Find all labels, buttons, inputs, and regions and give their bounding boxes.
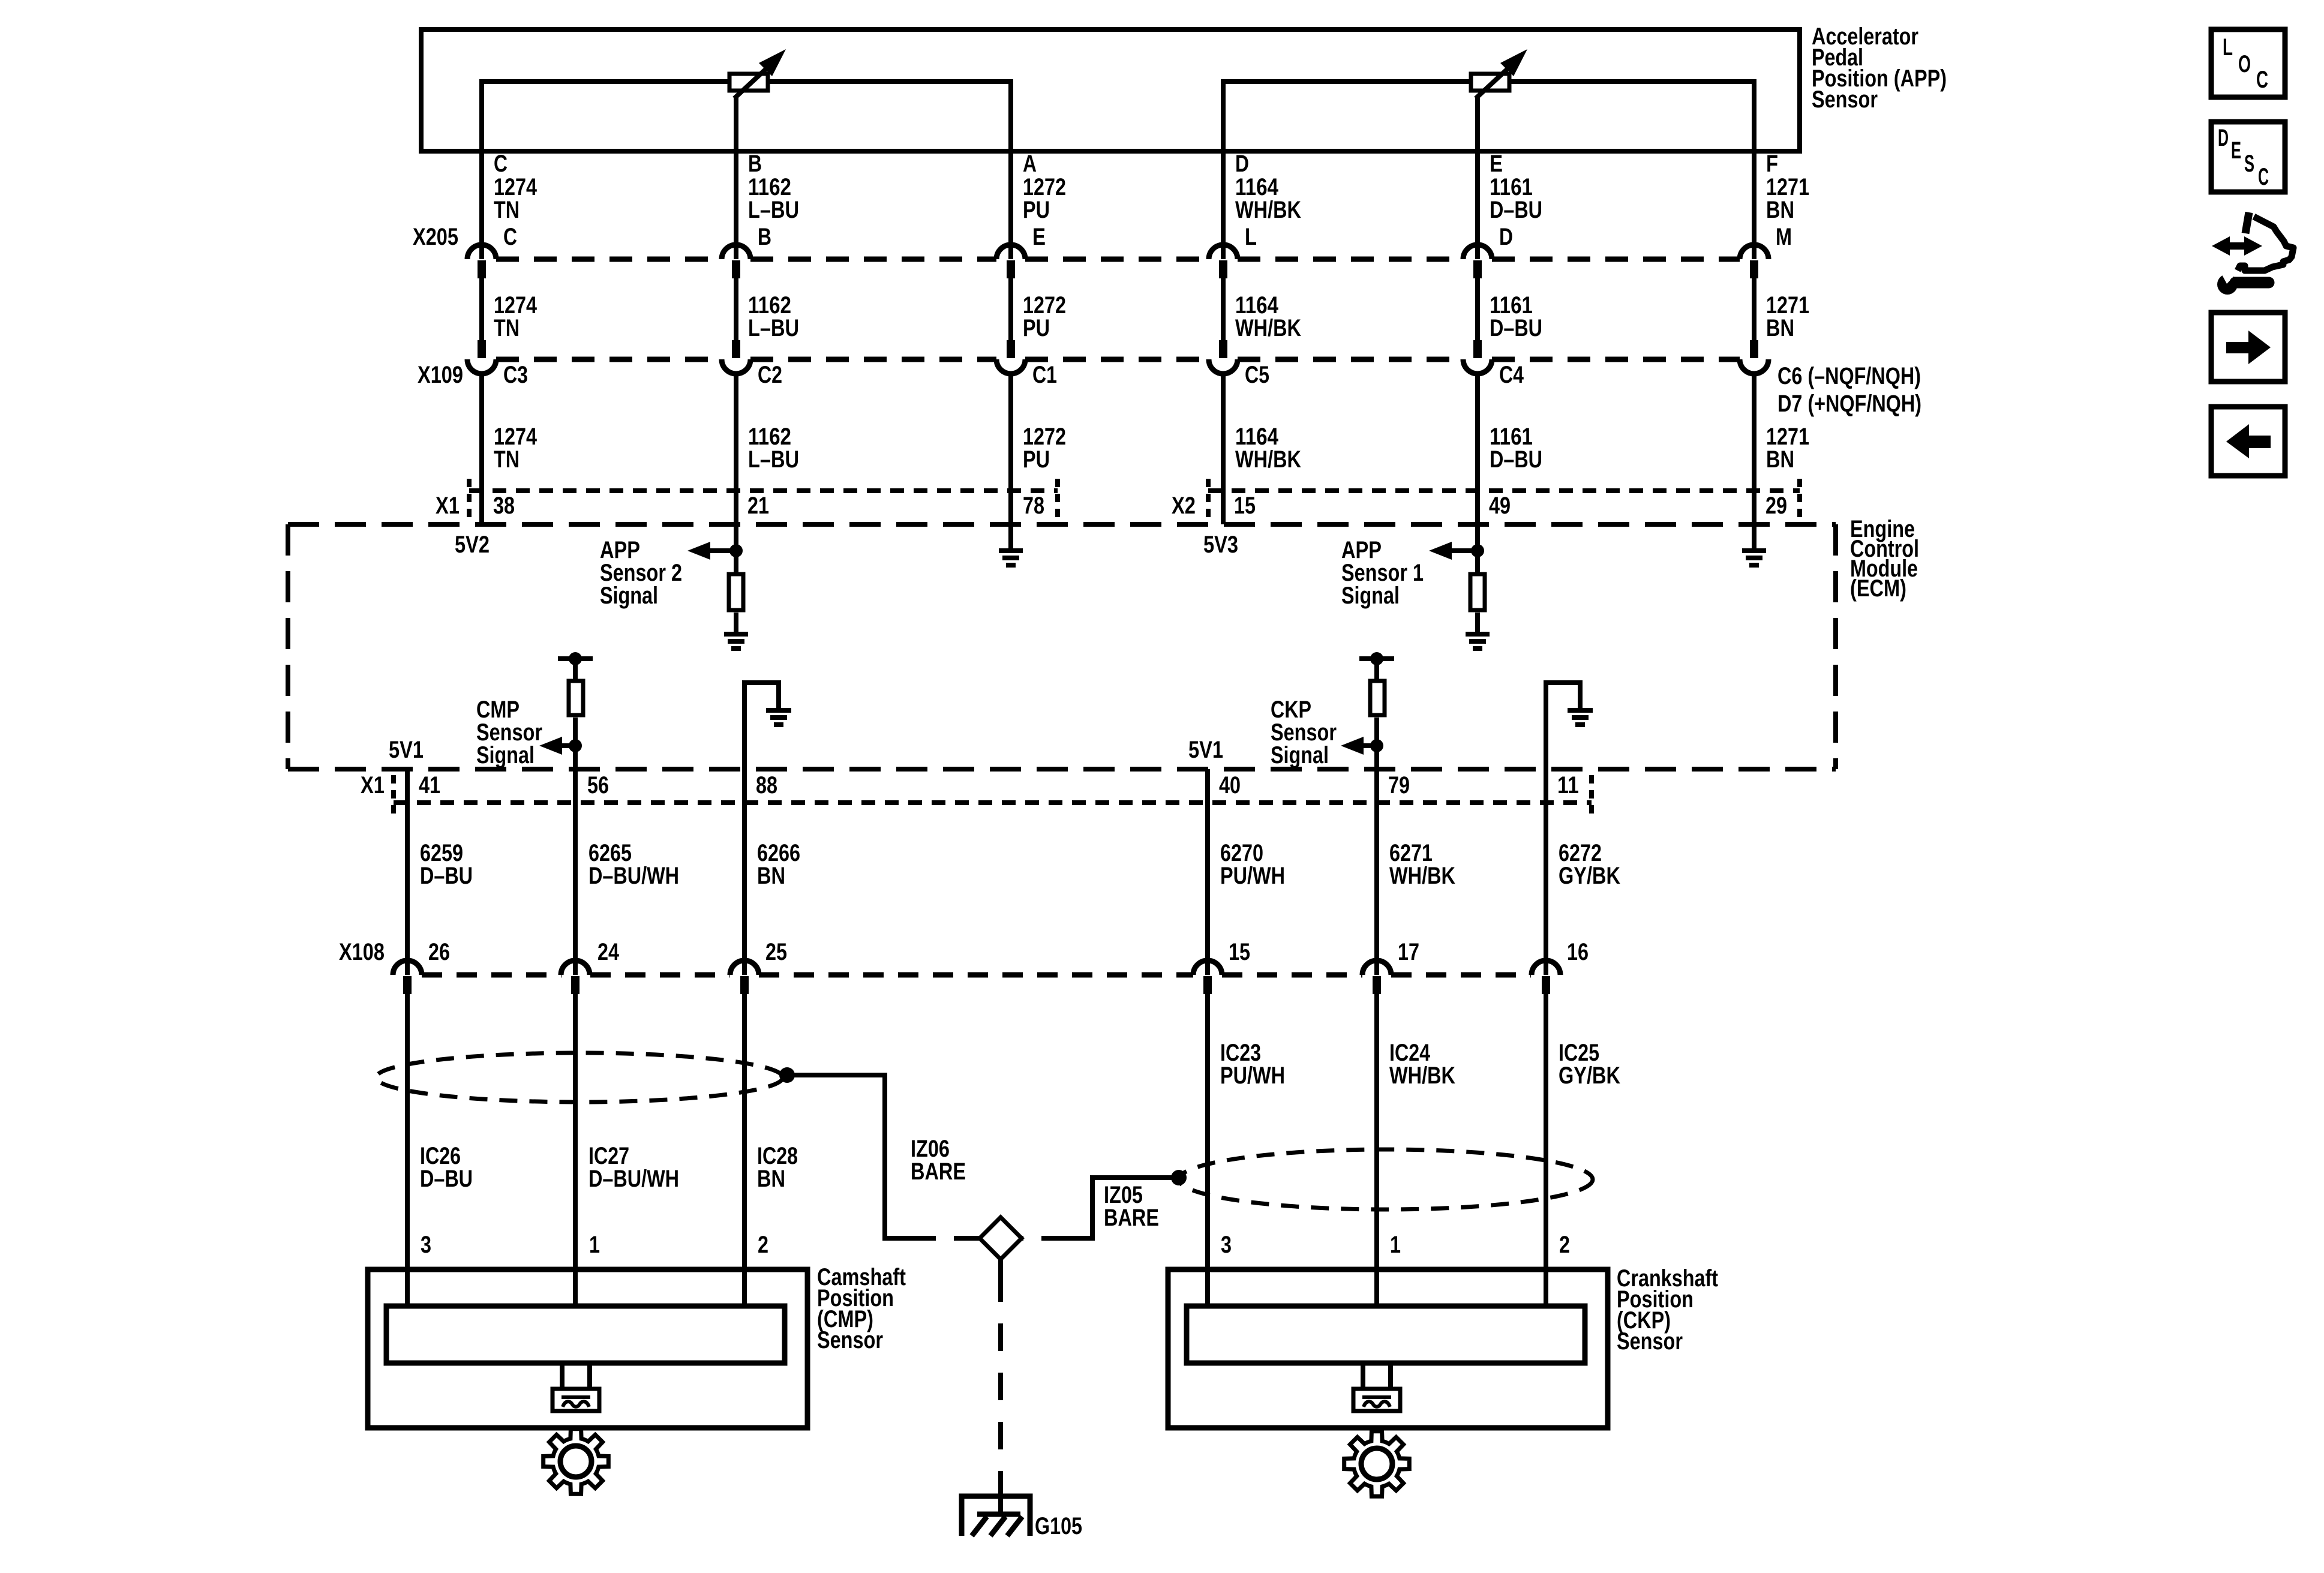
wire 1162 L-BU segment 3 <box>734 374 738 524</box>
svg-text:C6 (–NQF/NQH): C6 (–NQF/NQH) <box>1777 363 1921 389</box>
CMP sensor element <box>386 1306 785 1363</box>
potentiometer APP sensor 2 body <box>729 74 768 91</box>
svg-text:D–BU: D–BU <box>420 863 473 889</box>
connector X109 terminal C6 D7 <box>1750 340 1758 358</box>
wire 11 inside ECM <box>1546 683 1580 769</box>
connector X1 ECM bottom dashed line <box>394 800 1592 805</box>
svg-text:C: C <box>2256 67 2268 93</box>
node shield CMP junction <box>779 1067 795 1083</box>
svg-text:BARE: BARE <box>911 1158 966 1185</box>
svg-text:1: 1 <box>589 1232 600 1258</box>
svg-text:PU/WH: PU/WH <box>1220 863 1285 889</box>
svg-text:E: E <box>2231 137 2241 164</box>
wire 1274 TN segment 3 <box>479 374 484 524</box>
connector X1 tick left <box>467 479 472 517</box>
wire B inside ECM <box>734 524 738 574</box>
node CKP supply junction <box>1370 652 1383 665</box>
shield CKP drain ellipse <box>1179 1149 1593 1209</box>
node APP sensor 2 signal junction <box>729 544 743 557</box>
connector X205 terminal C <box>467 245 496 259</box>
wire splice to ground <box>998 1259 1003 1274</box>
wire 6270 PU/WH <box>1205 769 1210 975</box>
svg-text:X108: X108 <box>339 939 385 965</box>
connector X205 terminal M <box>1740 245 1768 259</box>
svg-text:Signal: Signal <box>1271 742 1329 769</box>
svg-text:X2: X2 <box>1172 493 1196 519</box>
wire 1271 BN segment 2 <box>1752 278 1756 340</box>
wire F inside ECM <box>1752 524 1756 551</box>
wire CKP pull-up <box>1374 659 1379 680</box>
connector X109 terminal C3 <box>478 340 486 358</box>
CMP sensor pickup box <box>553 1389 599 1411</box>
connector X2 tick right <box>1797 479 1802 517</box>
svg-text:Sensor: Sensor <box>1812 86 1878 113</box>
svg-text:C5: C5 <box>1245 362 1269 388</box>
wire IC24 WH/BK <box>1374 994 1379 1306</box>
wire 1272 PU segment 2 <box>1008 278 1013 340</box>
wire 6259 D-BU <box>405 769 410 975</box>
svg-text:B: B <box>758 224 771 250</box>
connector X108 terminal 24 <box>561 960 590 975</box>
svg-text:WH/BK: WH/BK <box>1389 863 1455 889</box>
wire IC23 PU/WH <box>1205 994 1210 1306</box>
ECM box <box>288 524 1836 769</box>
CKP pull-up supply rail <box>1359 656 1394 661</box>
svg-text:5V2: 5V2 <box>455 532 490 558</box>
svg-text:X1: X1 <box>436 493 460 519</box>
wire A inside ECM <box>1008 524 1013 551</box>
connector X205 terminal B <box>722 245 750 259</box>
svg-text:TN: TN <box>494 446 520 473</box>
potentiometer APP sensor 2 wiper arrow <box>734 67 768 98</box>
svg-text:BN: BN <box>1766 315 1794 341</box>
CKP sensor element <box>1187 1306 1585 1363</box>
ground pin 78 <box>999 551 1023 565</box>
svg-text:78: 78 <box>1023 493 1044 519</box>
svg-text:TN: TN <box>494 315 520 341</box>
svg-text:TN: TN <box>494 197 520 223</box>
wire IC28 BN <box>742 994 747 1306</box>
svg-text:15: 15 <box>1234 493 1256 519</box>
gear CMP reluctor <box>544 1429 609 1494</box>
connector X205 dashed line <box>496 257 1740 262</box>
APP sensor box <box>421 29 1800 151</box>
svg-text:C3: C3 <box>503 362 528 388</box>
svg-text:WH/BK: WH/BK <box>1235 315 1301 341</box>
svg-text:PU: PU <box>1023 197 1050 223</box>
wire 1161 D-BU segment 2 <box>1475 278 1480 340</box>
ground APP sensor 1 <box>1466 634 1490 649</box>
svg-text:(ECM): (ECM) <box>1850 575 1906 602</box>
svg-text:C: C <box>494 151 508 177</box>
svg-text:11: 11 <box>1557 772 1579 798</box>
svg-text:D–BU: D–BU <box>1490 315 1542 341</box>
potentiometer APP sensor 2 track <box>482 82 1011 259</box>
wire 88 inside ECM <box>744 683 779 769</box>
svg-text:M: M <box>1776 224 1792 250</box>
svg-text:21: 21 <box>747 493 769 519</box>
wire E wiper <box>1475 97 1480 259</box>
icon next page arrow box <box>2211 313 2285 382</box>
resistor CMP pull-up <box>569 681 583 715</box>
svg-text:3: 3 <box>421 1232 431 1258</box>
wire 1272 PU segment 3 <box>1008 374 1013 524</box>
connector X109 dashed line <box>496 357 1740 362</box>
node CKP sensor signal junction <box>1370 739 1383 752</box>
svg-text:Sensor: Sensor <box>1617 1328 1683 1355</box>
icon harness repair double arrow <box>2212 236 2262 256</box>
ground APP sensor 2 <box>724 634 748 649</box>
CMP sensor box <box>368 1269 807 1428</box>
CKP Sensor Signal arrow <box>1361 743 1377 748</box>
svg-text:BARE: BARE <box>1104 1205 1159 1231</box>
wire IZ05 BARE <box>1070 1178 1179 1238</box>
icon previous page arrow box <box>2211 407 2285 476</box>
connector X1 tick right <box>1055 479 1060 517</box>
svg-text:3: 3 <box>1221 1232 1232 1258</box>
svg-text:C2: C2 <box>758 362 782 388</box>
svg-text:1: 1 <box>1390 1232 1401 1258</box>
wire 79 inside ECM <box>1374 718 1379 769</box>
CMP sensor connector stubs <box>562 1363 590 1389</box>
svg-text:E: E <box>1490 151 1503 177</box>
wire below resistor <box>1475 613 1480 634</box>
resistor APP sensor 2 pull-down <box>729 574 743 610</box>
wire 6271 WH/BK <box>1374 769 1379 975</box>
svg-text:26: 26 <box>428 939 450 965</box>
connector X109 terminal C5 <box>1219 340 1227 358</box>
svg-text:L–BU: L–BU <box>748 446 799 473</box>
svg-text:L: L <box>1245 224 1257 250</box>
wire 1164 WH/BK segment 3 <box>1221 374 1226 524</box>
connector X205 terminal D <box>1463 245 1492 259</box>
connector X108 terminal 26 <box>393 960 422 975</box>
APP Sensor 1 Signal arrow <box>1449 548 1478 553</box>
wire IZ06 BARE <box>787 1075 907 1238</box>
svg-text:L: L <box>2223 34 2233 61</box>
wire 6272 GY/BK <box>1544 769 1548 975</box>
svg-text:Signal: Signal <box>476 742 535 769</box>
node APP sensor 1 signal junction <box>1471 544 1484 557</box>
svg-text:29: 29 <box>1765 493 1787 519</box>
svg-text:17: 17 <box>1398 939 1419 965</box>
potentiometer APP sensor 1 track <box>1223 82 1754 259</box>
svg-text:PU/WH: PU/WH <box>1220 1062 1285 1089</box>
svg-text:PU: PU <box>1023 446 1050 473</box>
wire IC27 D-BU/WH <box>573 994 578 1306</box>
svg-text:S: S <box>2244 151 2254 177</box>
svg-text:A: A <box>1023 151 1037 177</box>
node shield CKP junction <box>1171 1170 1187 1185</box>
splice diamond <box>980 1217 1022 1259</box>
svg-text:D–BU: D–BU <box>420 1166 473 1192</box>
svg-text:D–BU: D–BU <box>1490 197 1542 223</box>
connector X2 ECM top dashed line <box>1208 488 1800 493</box>
icon DESC box <box>2211 122 2285 192</box>
ground pin 29 <box>1742 551 1766 565</box>
icon harness repair connector outline <box>2238 217 2293 271</box>
svg-text:BN: BN <box>1766 446 1794 473</box>
CMP Sensor Signal arrow <box>560 743 575 748</box>
svg-text:D: D <box>1499 224 1513 250</box>
connector X108 terminal 17 <box>1362 960 1391 975</box>
svg-text:D7 (+NQF/NQH): D7 (+NQF/NQH) <box>1777 391 1921 417</box>
svg-text:X109: X109 <box>418 362 463 388</box>
svg-text:X1: X1 <box>361 772 385 798</box>
svg-text:24: 24 <box>597 939 620 965</box>
connector X1 bottom tick left <box>391 775 396 813</box>
wire 6265 D-BU/WH <box>573 769 578 975</box>
svg-text:G105: G105 <box>1035 1513 1082 1539</box>
connector X1 ECM top dashed line <box>469 488 1058 493</box>
svg-text:88: 88 <box>756 772 777 798</box>
svg-text:B: B <box>748 151 762 177</box>
APP Sensor 2 Signal arrow <box>708 548 736 553</box>
connector X108 terminal 16 <box>1532 960 1560 975</box>
svg-text:5V1: 5V1 <box>1188 737 1223 763</box>
svg-text:Signal: Signal <box>1341 583 1400 609</box>
svg-text:16: 16 <box>1567 939 1589 965</box>
connector X108 terminal 15 <box>1193 960 1222 975</box>
wire 6266 BN <box>742 769 747 975</box>
svg-text:25: 25 <box>765 939 787 965</box>
wire CMP pull-up <box>573 659 578 680</box>
svg-text:D–BU/WH: D–BU/WH <box>588 863 679 889</box>
connector X108 dashed line <box>422 972 1531 978</box>
gear CKP reluctor <box>1344 1431 1410 1497</box>
wire below resistor <box>734 613 738 634</box>
svg-text:L–BU: L–BU <box>748 197 799 223</box>
CMP pull-up supply rail <box>558 656 593 661</box>
svg-text:C: C <box>503 224 517 250</box>
wire 56 inside ECM <box>573 718 578 769</box>
svg-text:2: 2 <box>758 1232 768 1258</box>
svg-text:5V3: 5V3 <box>1203 532 1238 558</box>
connector X109 terminal C1 <box>1007 340 1015 358</box>
svg-text:C4: C4 <box>1499 362 1524 388</box>
svg-text:PU: PU <box>1023 315 1050 341</box>
wire 1271 BN segment 3 <box>1752 374 1756 524</box>
connector X1 bottom tick right <box>1589 775 1594 813</box>
svg-text:5V1: 5V1 <box>389 737 424 763</box>
svg-text:L–BU: L–BU <box>748 315 799 341</box>
svg-text:D–BU: D–BU <box>1490 446 1542 473</box>
resistor CKP pull-up <box>1370 681 1385 715</box>
wire 1164 WH/BK segment 2 <box>1221 278 1226 340</box>
node CMP supply junction <box>569 652 582 665</box>
svg-text:BN: BN <box>1766 197 1794 223</box>
svg-text:15: 15 <box>1229 939 1250 965</box>
svg-text:56: 56 <box>587 772 609 798</box>
svg-text:WH/BK: WH/BK <box>1235 197 1301 223</box>
connector X2 tick left <box>1206 479 1211 517</box>
svg-text:D: D <box>2218 125 2229 151</box>
svg-text:E: E <box>1032 224 1046 250</box>
svg-text:38: 38 <box>493 493 515 519</box>
potentiometer APP sensor 1 wiper arrow <box>1476 67 1509 98</box>
svg-text:BN: BN <box>757 863 785 889</box>
CKP sensor box <box>1168 1269 1608 1428</box>
svg-text:Sensor: Sensor <box>817 1327 883 1353</box>
svg-text:X205: X205 <box>413 224 458 250</box>
svg-text:Signal: Signal <box>600 583 658 609</box>
svg-text:GY/BK: GY/BK <box>1559 863 1620 889</box>
svg-text:2: 2 <box>1559 1232 1570 1258</box>
connector X205 terminal L <box>1209 245 1238 259</box>
wire 1274 TN segment 2 <box>479 278 484 340</box>
svg-text:D: D <box>1235 151 1249 177</box>
icon LOC box <box>2211 29 2285 97</box>
wire E inside ECM <box>1475 524 1480 574</box>
svg-text:41: 41 <box>419 772 440 798</box>
svg-text:BN: BN <box>757 1166 785 1192</box>
svg-text:C: C <box>2258 164 2269 190</box>
svg-text:WH/BK: WH/BK <box>1389 1062 1455 1089</box>
node CMP sensor signal junction <box>569 739 582 752</box>
svg-text:O: O <box>2238 51 2251 77</box>
ground pin 11 <box>1568 710 1593 725</box>
svg-text:79: 79 <box>1388 772 1410 798</box>
svg-text:40: 40 <box>1219 772 1241 798</box>
svg-text:F: F <box>1766 151 1778 177</box>
icon harness repair wrench <box>2217 274 2238 295</box>
wire IC26 D-BU <box>405 994 410 1306</box>
connector X109 terminal C2 <box>732 340 740 358</box>
ground G105 <box>962 1496 1030 1536</box>
svg-text:49: 49 <box>1489 493 1511 519</box>
wire 1162 L-BU segment 2 <box>734 278 738 340</box>
wire IC25 GY/BK <box>1544 994 1548 1306</box>
connector X109 terminal C4 <box>1473 340 1482 358</box>
resistor APP sensor 1 pull-down <box>1470 574 1485 610</box>
ground pin 88 <box>766 710 791 725</box>
shield CMP drain ellipse <box>376 1053 783 1102</box>
wire 1161 D-BU segment 3 <box>1475 374 1480 524</box>
wire B wiper <box>734 97 738 259</box>
svg-text:WH/BK: WH/BK <box>1235 446 1301 473</box>
svg-text:C1: C1 <box>1032 362 1057 388</box>
CKP sensor connector stubs <box>1363 1363 1391 1389</box>
svg-text:D–BU/WH: D–BU/WH <box>588 1166 679 1192</box>
svg-text:GY/BK: GY/BK <box>1559 1062 1620 1089</box>
connector X108 terminal 25 <box>730 960 759 975</box>
CKP sensor pickup box <box>1353 1389 1400 1411</box>
potentiometer APP sensor 1 body <box>1471 74 1509 91</box>
connector X205 terminal E <box>996 245 1025 259</box>
